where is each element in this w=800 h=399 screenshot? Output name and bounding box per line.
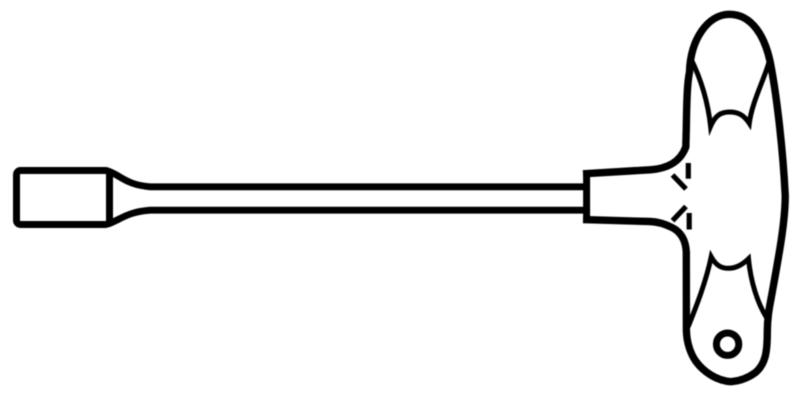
- hidden line: upper vertical dash: [686, 163, 691, 179]
- socket head: [17, 171, 110, 225]
- hidden line: upper diagonal dash: [673, 175, 687, 189]
- shaft top line with bell taper: [108, 171, 589, 187]
- shank top edge, top fillet, handle outline, bottom fillet, shank bottom edge: [583, 14, 785, 381]
- shank left edge: [583, 171, 590, 223]
- hidden line: lower diagonal dash: [673, 207, 687, 221]
- bottom grip contour: [689, 257, 768, 326]
- hidden line: lower vertical dash: [687, 213, 692, 230]
- shaft bottom line with bell taper: [108, 210, 589, 224]
- hang hole: [716, 333, 738, 355]
- top grip contour: [691, 58, 770, 126]
